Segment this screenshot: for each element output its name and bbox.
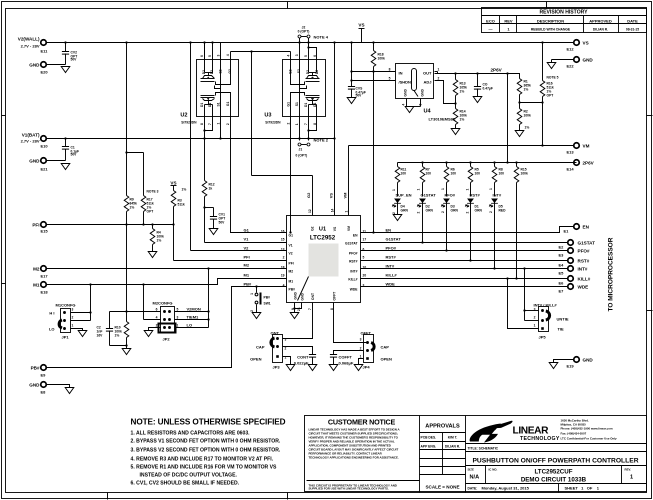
svg-text:V2(WALL): V2(WALL) (18, 37, 40, 42)
wire JP1 pin1 to ground (71, 329, 83, 331)
terminal E22 GND (552, 57, 594, 69)
terminal E17 M2 (33, 266, 48, 279)
svg-text:V1: V1 (244, 237, 250, 242)
U3 lower FET (291, 93, 320, 117)
svg-text:SIZE: SIZE (468, 468, 474, 472)
resistor R11 (392, 163, 407, 197)
svg-text:2: 2 (226, 123, 230, 125)
svg-text:PB#: PB# (264, 296, 271, 300)
svg-text:E15: E15 (41, 229, 49, 234)
svg-text:5: 5 (363, 256, 365, 260)
svg-text:V1(BAT): V1(BAT) (22, 133, 40, 138)
svg-text:14: 14 (330, 208, 334, 212)
svg-text:DILIAN R.: DILIAN R. (445, 445, 460, 449)
svg-text:GND: GND (29, 383, 40, 388)
wire JP4 pin2 to COFFT (334, 351, 364, 355)
svg-text:1%: 1% (460, 90, 465, 94)
ground below D4 (393, 215, 402, 221)
svg-text:INSTEAD OF DC/DC OUTPUT VOLTAG: INSTEAD OF DC/DC OUTPUT VOLTAGE. (140, 473, 238, 479)
svg-text:TECHNOLOGY: TECHNOLOGY (520, 436, 560, 442)
svg-text:1: 1 (438, 68, 440, 72)
svg-text:G1STAT: G1STAT (421, 193, 437, 198)
ground below R14 (451, 129, 460, 135)
wire JP5 pin1 to KILL# row (508, 279, 539, 329)
jumper JP2 M2CONFG (142, 267, 209, 341)
svg-text:G1STAT: G1STAT (345, 242, 358, 246)
svg-text:2: 2 (360, 347, 362, 351)
svg-text:5: 5 (304, 55, 308, 57)
svg-text:TIE: TIE (558, 327, 565, 332)
svg-text:2: 2 (441, 211, 445, 213)
svg-text:4: 4 (287, 55, 291, 57)
svg-text:Phone: (408)432-1900 www.li: Phone: (408)432-1900 www.linear.com (561, 427, 614, 431)
svg-text:1%: 1% (460, 118, 465, 122)
svg-text:REV: REV (504, 19, 513, 24)
svg-text:E1: E1 (564, 229, 570, 234)
wire JP3 pin2 to CONT (283, 347, 313, 355)
capacitor C1 (62, 137, 79, 160)
svg-text:100: 100 (426, 172, 432, 176)
svg-text:KILL#: KILL# (386, 273, 398, 278)
capacitor CVS (348, 87, 366, 98)
ground below C1 (61, 164, 70, 170)
U3 top pin stubs (290, 52, 292, 60)
resistor R12 (202, 181, 215, 243)
svg-text:JP5: JP5 (539, 335, 547, 340)
svg-text:1k: 1k (209, 187, 213, 191)
svg-text:KILL#: KILL# (578, 277, 591, 282)
LT logo (470, 421, 560, 443)
resistor R13 (453, 72, 467, 104)
svg-text:2. BYPASS V1 SECOND FET OPTION: 2. BYPASS V1 SECOND FET OPTION WITH 0 OH… (131, 439, 281, 445)
svg-text:LO: LO (49, 327, 55, 332)
resistor R7 (417, 163, 432, 197)
svg-text:PB#: PB# (31, 366, 40, 371)
transistor U3 SI7923DN dual PFET (264, 43, 325, 141)
svg-text:OUT: OUT (423, 71, 432, 76)
U2 lower FET (201, 93, 231, 117)
svg-text:TO MICROPROCESSOR: TO MICROPROCESSOR (608, 237, 615, 311)
svg-text:—: — (489, 27, 493, 32)
wire G2 gate route U2.4/U3.4 to U1 pin 12 (231, 50, 313, 215)
svg-text:E20: E20 (41, 70, 49, 75)
svg-text:1%: 1% (115, 334, 120, 338)
ground at JP1 pin1 (78, 331, 87, 337)
terminal E6 KILL# (559, 276, 591, 286)
svg-text:19: 19 (281, 274, 285, 278)
svg-text:VM: VM (347, 226, 351, 231)
resistor R6 (441, 163, 456, 197)
svg-text:VS: VS (170, 181, 176, 186)
capacitor CV2 (62, 41, 77, 64)
svg-text:100k: 100k (378, 57, 386, 61)
svg-text:SUPPLIED FOR USE WITH LINEAR T: SUPPLIED FOR USE WITH LINEAR TECHNOLOGY … (309, 487, 389, 491)
svg-text:S1: S1 (295, 102, 299, 106)
svg-text:INT#: INT# (578, 267, 588, 272)
wire PFO# row to E3 (361, 250, 569, 252)
U3 bottom pin stubs / wires (299, 117, 301, 141)
svg-text:TECHNOLOGY APPLICATIONS ENGINE: TECHNOLOGY APPLICATIONS ENGINEERING FOR … (309, 456, 399, 460)
svg-text:JP4: JP4 (363, 365, 371, 370)
resistor R10 (126, 312, 128, 322)
svg-text:16V: 16V (97, 334, 104, 338)
svg-text:V2MON: V2MON (187, 307, 201, 312)
svg-text:LTC2952CUF: LTC2952CUF (534, 469, 572, 476)
svg-text:1. ALL RESISTORS AND CAPACITOR: 1. ALL RESISTORS AND CAPACITORS ARE 0603… (131, 431, 251, 437)
wire ONT column (283, 303, 313, 339)
terminal E13 VM (567, 143, 590, 155)
svg-text:1: 1 (534, 324, 536, 328)
svg-text:3: 3 (360, 338, 362, 342)
svg-text:APPROVALS: APPROVALS (425, 424, 460, 430)
svg-text:GND: GND (29, 63, 40, 68)
svg-text:V2: V2 (289, 252, 293, 256)
svg-text:SHEET 1 OF 1: SHEET 1 OF 1 (565, 486, 600, 491)
border zone tick bottom (107, 493, 109, 500)
ground at E22 (547, 63, 556, 69)
jumper JP3 ONT select (250, 331, 312, 370)
svg-text:VM: VM (583, 144, 590, 149)
wire WDE row to E7 (361, 286, 569, 288)
svg-text:G1STAT: G1STAT (578, 241, 596, 246)
svg-text:ORN: ORN (451, 209, 459, 213)
svg-text:PFO#: PFO# (386, 246, 397, 251)
svg-text:3: 3 (295, 54, 299, 56)
jumper JP1 M1CONFG (49, 283, 92, 339)
svg-text:G1STAT: G1STAT (386, 237, 402, 242)
svg-text:PFO#: PFO# (445, 193, 456, 198)
terminal E8 GND (29, 382, 69, 395)
svg-text:J1: J1 (299, 148, 303, 152)
svg-text:2.7V - 28V: 2.7V - 28V (21, 44, 40, 49)
svg-text:REBUILD WITH CHANGE: REBUILD WITH CHANGE (531, 28, 571, 32)
svg-text:U2: U2 (180, 113, 187, 119)
svg-text:50V: 50V (219, 221, 226, 225)
svg-text:1: 1 (466, 189, 470, 191)
svg-text:NOTE 4: NOTE 4 (314, 35, 329, 40)
svg-text:M2CONFG: M2CONFG (153, 301, 173, 306)
svg-text:DATE:: DATE: (468, 487, 478, 491)
svg-text:100k: 100k (524, 114, 532, 118)
svg-text:2: 2 (438, 77, 440, 81)
svg-text:COFFT: COFFT (339, 355, 353, 360)
svg-text:EN: EN (386, 228, 392, 233)
wire JP1 pin3/pin2 to M1 row (71, 312, 91, 314)
LED D4 GRN (392, 199, 408, 215)
transistor U2 SI7923DN dual PFET (180, 41, 238, 139)
svg-text:13: 13 (281, 248, 285, 252)
svg-text:1: 1 (489, 188, 493, 190)
svg-text:H I: H I (49, 311, 54, 316)
ground below U4 (405, 107, 414, 113)
svg-text:OPEN: OPEN (381, 357, 392, 362)
svg-text:2: 2 (72, 316, 74, 320)
wire INT# row to E5 (361, 268, 569, 270)
resistor R5 (466, 163, 481, 197)
title rows (466, 443, 647, 445)
capacitor CONT (294, 355, 316, 366)
svg-text:RST#: RST# (349, 260, 358, 264)
svg-text:7: 7 (308, 308, 312, 310)
svg-text:E11: E11 (41, 49, 49, 54)
jumper J1 0 (OPT) (296, 138, 329, 158)
svg-text:1: 1 (345, 211, 349, 213)
svg-text:JP2: JP2 (163, 337, 171, 342)
ground below R4 (148, 252, 157, 258)
capacitor C2 / resistor R10 timer network (97, 225, 161, 349)
resistor R3 (171, 191, 185, 226)
svg-text:4. REMOVE R3 AND INCLUDE R17 T: 4. REMOVE R3 AND INCLUDE R17 TO MONITOR … (131, 457, 274, 463)
svg-text:3. BYPASS V2 SECOND FET OPTION: 3. BYPASS V2 SECOND FET OPTION WITH 0 OH… (131, 448, 281, 454)
svg-text:LTC2952: LTC2952 (310, 235, 336, 242)
wire JP4 pin1 to ground (359, 359, 364, 365)
svg-text:E18: E18 (41, 290, 49, 295)
svg-text:IC NO.: IC NO. (489, 468, 498, 472)
svg-text:08-31-15: 08-31-15 (626, 28, 639, 32)
svg-text:E13: E13 (567, 150, 575, 155)
svg-text:CAP: CAP (381, 345, 390, 350)
svg-text:1%: 1% (524, 88, 529, 92)
svg-text:EN: EN (583, 225, 590, 230)
svg-text:E7: E7 (559, 289, 565, 294)
svg-text:M2: M2 (289, 270, 294, 274)
svg-text:1%: 1% (182, 188, 187, 192)
terminal E15 PFI (32, 222, 48, 234)
svg-text:3: 3 (217, 55, 221, 57)
svg-text:WDE: WDE (578, 285, 589, 290)
resistor R18 (371, 41, 385, 71)
ground below COFFT (329, 365, 338, 371)
svg-text:VM: VM (343, 192, 348, 199)
svg-text:1: 1 (72, 324, 74, 328)
svg-text:E6: E6 (559, 281, 565, 286)
svg-text:SW1: SW1 (264, 302, 271, 306)
svg-text:CAP: CAP (256, 345, 265, 350)
svg-text:PFI: PFI (32, 223, 39, 228)
svg-text:5. REMOVE R1 AND INCLUDE R16 F: 5. REMOVE R1 AND INCLUDE R16 FOR VM TO M… (131, 465, 278, 471)
svg-text:2: 2 (156, 324, 158, 328)
svg-text:OFFT: OFFT (333, 292, 337, 301)
svg-text:NOTE 2: NOTE 2 (314, 138, 329, 143)
svg-text:DILIAN R.: DILIAN R. (593, 28, 608, 32)
svg-text:APP ENG.: APP ENG. (421, 445, 437, 449)
svg-text:E12: E12 (567, 47, 575, 52)
op-amp U1 LTC2952 (controller IC) (281, 216, 367, 312)
svg-text:5: 5 (177, 308, 179, 312)
svg-text:1: 1 (217, 123, 221, 125)
wire OFFT column (334, 303, 368, 343)
svg-text:2: 2 (534, 316, 536, 320)
svg-text:6: 6 (156, 308, 158, 312)
regulator U4 LT3010EMS8E (389, 64, 456, 122)
wire M2 row E17 to U1 (44, 268, 287, 270)
U2 top pin stubs (204, 43, 206, 60)
wire VS column to U1 pin 14 (328, 41, 335, 215)
ground at JP4 pin1 (354, 365, 363, 371)
border zone tick top (287, 2, 289, 9)
svg-text:1: 1 (360, 355, 362, 359)
wire LED supply rail 2P6V (398, 162, 577, 164)
svg-text:E9: E9 (41, 373, 47, 378)
svg-text:LTC Confidential-For Customer: LTC Confidential-For Customer Use Only (561, 437, 618, 441)
svg-text:WDE: WDE (386, 282, 396, 287)
terminal E7 WDE (559, 284, 589, 294)
svg-text:SI7923DN: SI7923DN (181, 121, 197, 125)
LED D3 ORN (441, 199, 458, 252)
terminal E20 GND (29, 62, 65, 75)
jumper JP5 INT#/KILL# tie (506, 267, 568, 339)
svg-text:GND: GND (301, 293, 305, 301)
U2 bottom pin stubs / wires (204, 117, 206, 139)
ground below U1 (290, 313, 299, 319)
svg-text:2: 2 (283, 256, 285, 260)
wire V2 feed to U1 V2 pin (189, 41, 286, 250)
node VS flag at R3 (170, 181, 186, 192)
svg-text:G1: G1 (287, 102, 291, 107)
svg-text:CONT: CONT (297, 355, 309, 360)
svg-text:INT#: INT# (493, 193, 502, 198)
wire PB# row to U1 and down to E9 row (44, 287, 287, 368)
svg-text:4: 4 (402, 104, 406, 106)
svg-text:INT#: INT# (350, 270, 357, 274)
svg-text:511k: 511k (178, 203, 185, 207)
jumper JP4 OFFT select (334, 331, 392, 370)
svg-text:5: 5 (389, 77, 391, 81)
terminal E14 2P6V (567, 160, 595, 172)
svg-text:RST#: RST# (386, 255, 397, 260)
ground below CVS (347, 98, 356, 104)
svg-text:PCB DES.: PCB DES. (421, 436, 437, 440)
svg-text:DATE: DATE (627, 19, 638, 24)
ground below CV1 (209, 229, 218, 235)
resistor R14 (453, 104, 467, 129)
svg-text:E21: E21 (41, 167, 49, 172)
svg-text:M1: M1 (33, 283, 40, 288)
approvals box (465, 416, 467, 493)
wire JP3 pin1 to ground (283, 357, 291, 365)
svg-text:2P6V: 2P6V (491, 68, 503, 73)
svg-text:6: 6 (200, 55, 204, 57)
svg-text:DEMO CIRCUIT 1033B: DEMO CIRCUIT 1033B (521, 477, 587, 484)
svg-text:PUSHBUTTON ON/OFF POWERPATH CO: PUSHBUTTON ON/OFF POWERPATH CONTROLLER (472, 458, 638, 465)
U2 upper FET (201, 60, 231, 117)
wire EN row to E1 (361, 227, 574, 233)
svg-text:APPROVED: APPROVED (589, 19, 612, 24)
svg-text:/SHDN: /SHDN (399, 80, 412, 85)
terminal E11 V2(WALL) (18, 37, 48, 54)
svg-text:GRN: GRN (401, 209, 409, 213)
svg-text:ONT: ONT (311, 293, 315, 300)
terminal E12 VS (567, 40, 589, 52)
svg-text:LO: LO (187, 323, 193, 328)
svg-text:SI7923DN: SI7923DN (265, 121, 281, 125)
resistor R8 (489, 163, 504, 197)
svg-text:2: 2 (285, 347, 287, 351)
svg-text:D1: D1 (304, 103, 308, 107)
svg-text:OPEN: OPEN (250, 357, 261, 362)
capacitor CO (474, 72, 493, 96)
svg-text:U4: U4 (424, 109, 432, 115)
svg-text:PFI: PFI (244, 255, 250, 260)
wire R18 pull-up column to EN row (373, 72, 375, 233)
svg-text:3: 3 (285, 338, 287, 342)
ground below CO (473, 97, 482, 103)
svg-text:Fax: (408)434-0507: Fax: (408)434-0507 (561, 432, 587, 436)
svg-text:G1: G1 (244, 228, 250, 233)
svg-text:NOTE 5: NOTE 5 (547, 76, 559, 80)
wire V2 top bus (VS bus) E11 to E12 (44, 42, 577, 44)
svg-text:1%: 1% (157, 239, 162, 243)
svg-text:SUP_EN: SUP_EN (396, 193, 412, 198)
svg-text:G1: G1 (289, 234, 294, 238)
svg-text:17: 17 (363, 238, 367, 242)
capacitor COFFT (330, 355, 354, 366)
svg-text:OPT: OPT (547, 94, 554, 98)
svg-text:E3: E3 (559, 253, 565, 258)
svg-text:100: 100 (401, 172, 407, 176)
ground at JP3 pin1 (286, 365, 295, 371)
svg-text:E4: E4 (559, 263, 565, 268)
svg-text:RST#: RST# (470, 193, 481, 198)
terminal E2 G1STAT (559, 240, 596, 250)
svg-text:M1: M1 (244, 273, 250, 278)
svg-text:3: 3 (177, 316, 179, 320)
wire RST# row to E4 (361, 260, 569, 262)
svg-text:7: 7 (304, 123, 308, 125)
svg-text:7: 7 (208, 123, 212, 125)
svg-text:2: 2 (392, 212, 396, 214)
svg-text:E22: E22 (567, 64, 575, 69)
wire U1 GND pins to ground (293, 303, 301, 313)
svg-text:SCALE = NONE: SCALE = NONE (425, 485, 459, 490)
revision history table (482, 8, 647, 33)
wire JP2 pin4 TIEM1 to M1 row (144, 319, 161, 321)
terminal E21 GND (29, 158, 65, 172)
svg-text:VS: VS (583, 41, 589, 46)
capacitor C2 (109, 312, 111, 329)
svg-text:GND: GND (583, 358, 594, 363)
wire M1 row E18 to U1 (44, 279, 287, 285)
terminal E9 PB# (31, 365, 47, 378)
svg-text:V2: V2 (244, 246, 250, 251)
svg-text:0.068µF: 0.068µF (339, 361, 354, 366)
svg-text:21: 21 (297, 307, 301, 311)
svg-text:0.022µF: 0.022µF (294, 361, 309, 366)
svg-text:8: 8 (200, 123, 204, 125)
svg-text:50V: 50V (71, 153, 78, 157)
svg-text:0 (OPT): 0 (OPT) (298, 30, 310, 34)
svg-text:GND: GND (29, 159, 40, 164)
svg-text:E5: E5 (559, 271, 565, 276)
svg-text:GND: GND (583, 58, 594, 63)
svg-text:GND: GND (421, 89, 425, 97)
svg-text:DESCRIPTION: DESCRIPTION (537, 19, 564, 24)
ground below SW1 (252, 313, 261, 319)
svg-text:12: 12 (308, 209, 312, 213)
svg-text:OPT: OPT (147, 210, 154, 214)
wire U4 OUT 2P6V row (435, 74, 520, 79)
svg-text:PFO#: PFO# (578, 249, 590, 254)
svg-text:100: 100 (451, 172, 457, 176)
svg-text:4: 4 (226, 54, 230, 56)
svg-text:LT3010EMS8E: LT3010EMS8E (429, 117, 456, 122)
svg-text:ORN: ORN (426, 209, 434, 213)
terminal E10 V1(BAT) (21, 133, 49, 149)
border zone tick left (2, 115, 6, 117)
svg-text:1%: 1% (525, 126, 530, 130)
terminal E3 PFO# (559, 248, 590, 258)
svg-text:EN: EN (353, 234, 358, 238)
